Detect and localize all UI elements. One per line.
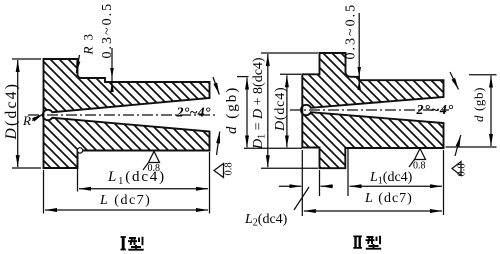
svg-text:d (gb): d (gb) bbox=[471, 87, 486, 122]
svg-text:d (gb): d (gb) bbox=[224, 86, 240, 134]
svg-text:R 3: R 3 bbox=[81, 33, 96, 56]
svg-text:0.3~0.5: 0.3~0.5 bbox=[100, 2, 115, 59]
svg-text:0.8: 0.8 bbox=[413, 161, 426, 172]
svg-text:0.8: 0.8 bbox=[224, 162, 235, 175]
svg-text:L1(dc4): L1(dc4) bbox=[369, 170, 413, 187]
svg-text:L (dc7): L (dc7) bbox=[364, 191, 413, 206]
svg-text:2°~4°: 2°~4° bbox=[416, 103, 455, 118]
svg-text:0.3~0.5: 0.3~0.5 bbox=[344, 3, 359, 60]
svg-text:R: R bbox=[22, 113, 31, 128]
svg-text:2°~4°: 2°~4° bbox=[176, 105, 211, 120]
svg-text:L2(dc4): L2(dc4) bbox=[244, 212, 288, 229]
svg-text:D(dc4): D(dc4) bbox=[3, 82, 20, 141]
svg-text:L (dc7): L (dc7) bbox=[99, 193, 151, 208]
svg-text:D(dc4): D(dc4) bbox=[273, 87, 288, 132]
svg-text:0.8: 0.8 bbox=[457, 163, 468, 176]
svg-text:0.8: 0.8 bbox=[148, 163, 161, 174]
